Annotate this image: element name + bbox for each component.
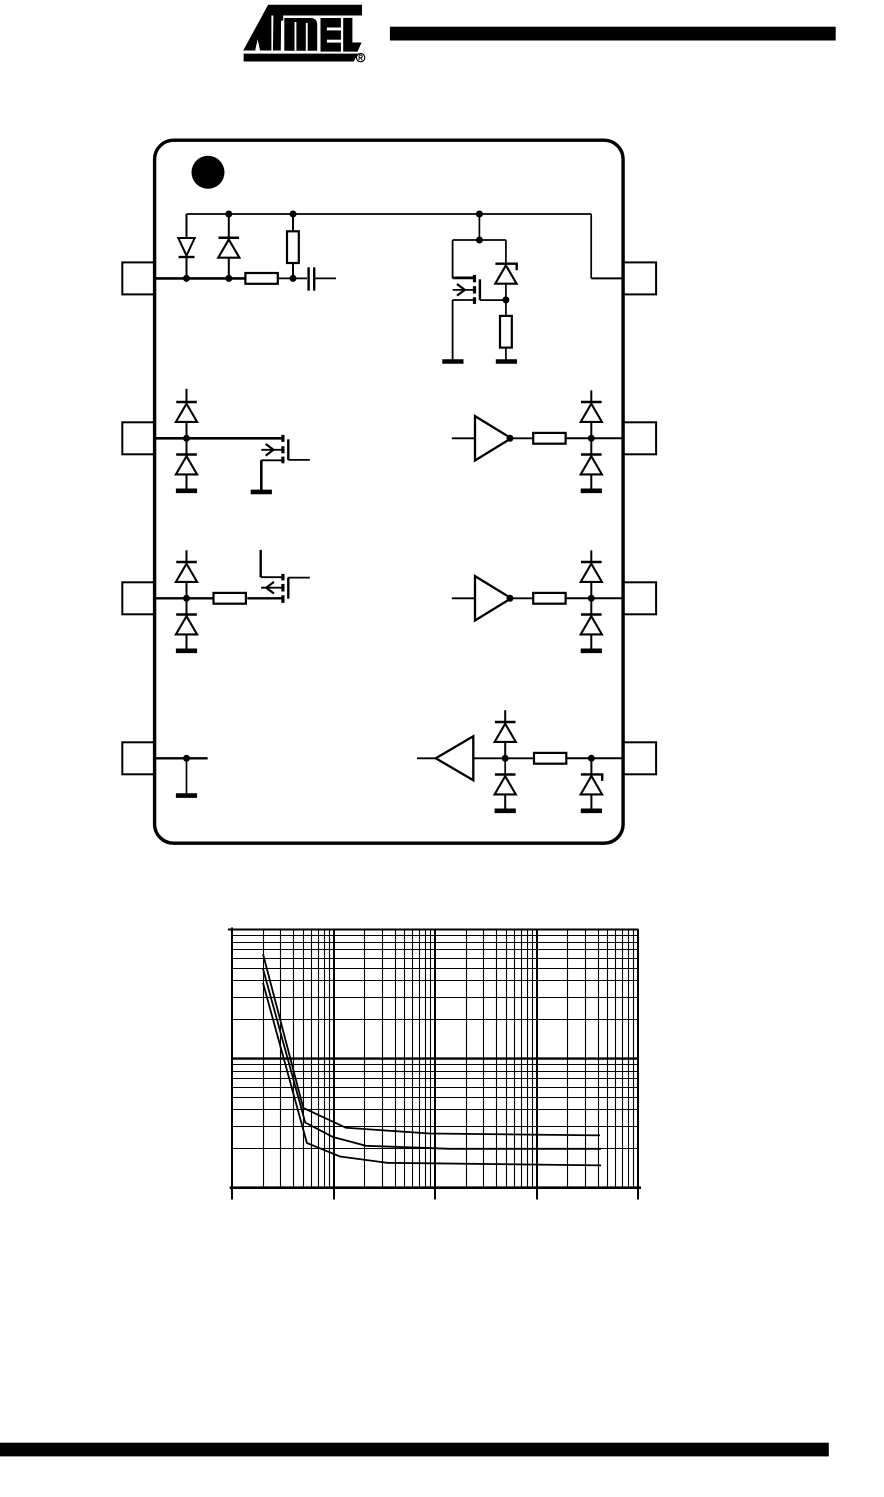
wire: D7 to pin line [590,422,592,438]
wire: pin line to Z2 [590,758,592,774]
wire: pin line to D12 [504,758,506,774]
wire: pin line to D10 [590,598,592,614]
letter E slot 1 [327,28,342,31]
node: pin 3 junction [183,595,190,602]
ground [176,648,197,653]
wire: R5 to pin 7 [566,437,625,439]
buffer A1 [475,416,511,460]
capacitor C1 [309,267,315,290]
mosfet M2 [261,435,310,463]
footer rule bar [0,1443,829,1457]
diode D10 [581,615,602,635]
logo letter E [321,18,341,52]
wire: D8 to ground [590,474,592,491]
buffer A2 [475,576,511,620]
wire: pin 4 line [154,757,207,759]
diode D4 [176,455,197,475]
wire: to zener Z1 [505,240,507,264]
diode D11 [495,722,516,742]
ground [581,488,602,493]
diode D7 [581,402,602,422]
ground [176,488,197,493]
letter M slit 2 [306,23,308,51]
pin 6 stub [623,582,656,614]
resistor R3 [500,316,512,348]
zener diode Z1 [495,264,517,284]
wire: D11 to pin line [504,742,506,758]
resistor R5 [533,433,565,444]
junction dot [225,275,232,282]
letter E slot 2 [327,40,342,43]
wire: R1 to pin 1 line [292,263,294,278]
wire: A2 to R6 [508,597,533,599]
wire: M1 source lead [453,299,473,301]
wire: D6 to ground [186,634,188,651]
pin 3 stub [122,582,154,614]
header rule bar [390,27,836,41]
wire: buffer A3 output [417,757,436,759]
node: pin 7 junction [588,435,595,442]
pin 1 marker [192,156,225,189]
wire: to M1 drain [452,240,454,278]
wire: pin 4 to ground [186,758,188,795]
junction dot [502,755,509,762]
diode D6 [176,615,197,635]
graph: log-log grid [233,930,639,1188]
pin 8 stub [623,262,656,294]
ground [581,808,602,813]
diode D8 [581,455,602,475]
wire: D7 top stub [590,390,592,402]
wire: D5 top stub [186,550,188,562]
logo letter M [284,18,317,51]
junction on rail [225,211,232,218]
wire: pin line to D4 [186,438,188,454]
graph: curve 2 [263,969,601,1149]
pin 4 stub [122,742,154,774]
ground [442,359,463,364]
wire: D5 to pin line [186,582,188,598]
diode D2 [218,238,239,258]
wire: Z1 to R3 [505,284,507,316]
package outline [155,140,623,843]
diode D1 [178,238,194,257]
ground [496,359,517,364]
node: pin 1 junction [183,275,190,282]
wire: R7 to pin 5 [566,757,624,759]
wire: Z2 to ground [590,795,592,811]
Atmel logo [243,5,365,62]
wire: R3 to ground [505,348,507,362]
wire: buffer A1 input [452,437,475,439]
node: pin 5 junction [588,755,595,762]
wire: D2 to pin 1 line [228,258,230,279]
wire: rail down to pin 8 [590,214,592,278]
graph: curve 1 [263,954,600,1135]
diode D3 [176,402,197,422]
wire: pin line to D8 [590,438,592,454]
node: pin 6 junction [588,595,595,602]
wire: M2 source lead [261,459,283,461]
wire: M1 drain lead [453,276,475,279]
wire: D4 to ground [186,474,188,491]
diode D12 [495,775,516,795]
wire: C1 output [315,277,336,279]
graph: curve 3 [263,983,601,1166]
pin 5 stub [623,742,656,774]
wire: D1 to pin 1 line [186,257,188,278]
wire: D9 to pin line [590,582,592,598]
wire: D10 to ground [590,634,592,651]
node: pin 2 junction [183,435,190,442]
ground [581,648,602,653]
pin 2 stub [122,422,154,454]
node: A1 output [507,435,514,442]
wire: VCC rail [187,213,592,215]
resistor R1 [287,231,299,263]
wire: top link [453,239,506,241]
wire: D3 top stub [186,389,188,402]
wire: R2 to C1 [278,277,307,279]
wire: R4 to M3 drain [247,597,283,599]
junction on rail [290,211,297,218]
junction on rail [476,211,483,218]
resistor R2 [245,273,277,284]
wire: pin line to D6 [186,598,188,614]
ground [495,808,516,813]
wire: R6 to pin 6 [566,597,625,599]
wire: M3 source up [260,550,262,577]
logo bottom bar [244,54,358,62]
wire: rail to D1 [186,214,188,238]
wire: rail to D2 [228,214,230,238]
wire: D3 to pin line [186,422,188,438]
wire: M2 source to ground [260,460,263,492]
wire: D12 to ground [504,794,506,811]
wire: D11 top stub [504,710,506,722]
logo letter T [273,16,283,51]
logo letter A [243,5,271,51]
resistor R7 [534,753,566,764]
wire: A3 input wire [473,757,505,759]
logo letter L [343,18,361,52]
node: A2 output [507,595,514,602]
wire: pin 2 line [154,437,283,440]
wire: to R7 [505,757,534,759]
letter M slit 1 [295,22,297,51]
resistor R6 [533,593,565,604]
wire: to pin 8 [591,277,624,279]
pin 1 stub [122,262,154,294]
wire: pin 1 line [154,277,245,280]
logo letter A notch [255,39,260,50]
graph: axes and decade lines [228,928,641,1200]
pin 7 stub [623,422,656,454]
junction dot [476,237,483,244]
wire: D9 top stub [590,550,592,562]
wire: rail to R1 [292,214,294,231]
registered trademark symbol [356,53,364,61]
logo top bar [262,5,362,16]
node: pin 4 junction [183,755,190,762]
wire: buffer A2 input [452,597,475,599]
buffer A3 [436,736,474,780]
wire: M3 top lead [261,576,283,578]
wire: A1 to R5 [508,437,533,439]
resistor R4 [214,593,246,604]
ground [251,490,272,495]
junction dot [290,275,297,282]
mosfet M3 (p-channel) [261,574,310,603]
mosfet M1 [453,275,506,304]
diode D5 [176,562,197,582]
wire: M1 source to ground [452,300,454,362]
node: gate junction [502,296,509,303]
zener diode Z2 [581,774,603,794]
wire: rail drop [478,214,480,240]
ground [176,793,197,798]
wire: pin 3 line [154,597,213,599]
diode D9 [581,562,602,582]
